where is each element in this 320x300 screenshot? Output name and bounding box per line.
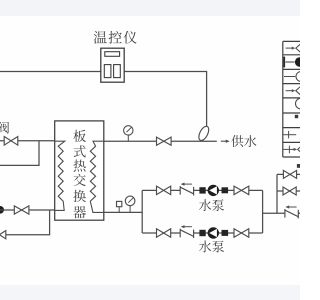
wire: pump branch 1 [142, 189, 262, 191]
label 板式热交换器 (vertical) [73, 130, 86, 142]
label 温控仪 (temperature controller) [94, 31, 107, 44]
legend row 7 symbol (tick) [283, 134, 296, 136]
valve V9 [283, 170, 290, 178]
valve V10 [283, 187, 290, 195]
pressure gauge PG2 [129, 206, 131, 213]
label 水泵 (upper) [199, 199, 211, 211]
pressure gauge PG1 [127, 135, 129, 141]
legend row 3 symbol (gauge) [284, 76, 295, 78]
wire: lower-left pipe [0, 209, 55, 211]
wire: upper-left pipe [0, 140, 55, 142]
wire: lower-left bypass [6, 210, 50, 235]
valve V8 [234, 229, 241, 238]
legend table frame [282, 41, 284, 157]
wire: discharge pipe [263, 212, 300, 214]
check valve CV1 [180, 188, 193, 192]
heat exchanger left coil [55, 141, 65, 210]
legend row 5 symbol (circle, cut) [296, 98, 307, 109]
legend row 2 symbol (pump) [283, 57, 285, 68]
bottom banner band [0, 285, 300, 300]
valve V6 [157, 229, 164, 238]
wire: pump suction header [141, 190, 143, 233]
valve V1 [4, 137, 11, 146]
wire: pump branch 2 [142, 232, 262, 234]
wire: tee branch to left edge [0, 141, 39, 166]
check valve CV3 [285, 211, 298, 215]
heat exchanger shell 板式热交换器 [55, 121, 104, 220]
valve V4 (half, cut at edge) [0, 231, 6, 239]
air separator (tilted ellipse) [197, 125, 211, 142]
legend row 8 symbol (tick+arrow) [283, 148, 294, 150]
valve V3 (supply gate valve) [157, 137, 164, 145]
legend row 4 symbol (valve) [286, 90, 293, 92]
wire: right riser [276, 174, 278, 213]
label 供水 [231, 135, 243, 147]
legend row 1 symbol (valve) [286, 47, 293, 49]
legend row 6 symbol (cut) [295, 115, 298, 118]
top banner band [0, 0, 300, 16]
wire: outlet branch 2 [277, 190, 300, 192]
label 水泵 (lower) [199, 241, 211, 253]
pump PU2 [199, 230, 205, 236]
pump dot (cut at left edge) [0, 206, 4, 214]
text fragment (cut at edge) [297, 164, 300, 168]
flow arrow to 供水 [221, 140, 227, 142]
temperature controller U1 [101, 48, 124, 82]
valve V2 [14, 206, 21, 214]
label 阀 (valve) [0, 122, 9, 134]
wire: exchanger outlet pipe [104, 211, 142, 213]
pump PU1 [199, 187, 205, 193]
heat exchanger right coil [90, 141, 104, 212]
valve V7 [234, 186, 241, 195]
wire: outlet branch 1 [277, 173, 300, 175]
thermometer T1 [118, 207, 120, 213]
wire: top header pipe [0, 72, 207, 128]
wire: pump discharge header [262, 190, 264, 233]
check valve CV2 [180, 231, 193, 235]
valve V5 [157, 186, 164, 195]
wire: supply pipe 供水 [104, 140, 217, 142]
